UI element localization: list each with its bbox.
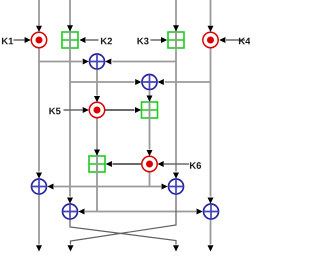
wire A vertical from U1 to XOR3L — [38, 48, 40, 172]
wire D branch to XOR2 — [165, 81, 211, 83]
wire input X2 through ADD2 — [69, 0, 71, 49]
arrowhead B into XOR2 — [135, 79, 141, 85]
wire C vertical from ADD3 to XOR3R — [175, 49, 177, 172]
arrowhead output Y2 — [68, 245, 74, 251]
label K4 — [239, 38, 250, 45]
arrowhead output Y3 — [173, 245, 179, 251]
arrowhead output Y4 — [208, 245, 214, 251]
xor XOR4R (oplus) — [204, 204, 219, 219]
wire F from XOR2 through ADD5 down to U6 — [149, 90, 151, 149]
multiplier U1 (odot) K1 — [31, 32, 46, 47]
multiplier U4 (odot) K4 — [203, 32, 218, 47]
arrowhead K1 into U1 — [25, 37, 31, 43]
arrowhead A into XOR1 — [83, 59, 89, 65]
arrowhead D into XOR2 — [158, 79, 164, 85]
arrowhead input X2 — [67, 25, 73, 31]
arrowhead input X4 — [208, 26, 214, 32]
adder ADD3 (boxplus) K3 — [168, 32, 184, 48]
wire u from U6 to ADD6 — [113, 163, 142, 165]
wire K3 label arrow line — [151, 39, 162, 41]
wire B branch to XOR2 — [70, 81, 135, 83]
arrowhead output Y1 — [36, 245, 42, 251]
arrowhead D into XOR4R — [208, 198, 214, 204]
wire K5 label arrow line — [64, 109, 83, 111]
wire K2 label arrow line — [86, 39, 99, 41]
label K6 — [190, 162, 201, 169]
wire output Y2 crossing — [71, 195, 177, 245]
arrowhead t1 into ADD5 — [135, 107, 141, 113]
arrowhead C into XOR3R — [173, 173, 179, 179]
arrowhead K2 into ADD2 — [79, 37, 85, 43]
arrowhead input X3 — [173, 25, 179, 31]
wire B vertical from ADD2 to XOR4L — [69, 49, 71, 197]
arrowhead u into ADD6 — [106, 161, 112, 167]
arrowhead v into XOR4R — [197, 209, 203, 215]
label K2 — [101, 38, 112, 45]
xor XOR2 (oplus) — [142, 75, 157, 90]
arrowhead input X1 — [36, 26, 42, 32]
label K3 — [137, 38, 148, 45]
arrowhead v into XOR4L — [78, 209, 84, 215]
wire u bus at y186 — [54, 186, 161, 188]
wire input X4 — [210, 0, 212, 26]
wire K6 label arrow line — [164, 163, 189, 165]
xor XOR1 (oplus) — [90, 54, 105, 69]
wire input X3 through ADD3 — [175, 0, 177, 49]
wire K1 label arrow line — [14, 39, 25, 41]
adder ADD6 (boxplus) — [89, 156, 105, 172]
wire output Y1 — [38, 195, 40, 245]
wire t1 from U5 through ADD6 down to v bus — [96, 118, 98, 212]
arrowhead t1 into ADD6 — [94, 150, 100, 156]
arrowhead A into XOR3L — [36, 173, 42, 179]
multiplier U5 (odot) K5 — [89, 102, 104, 117]
wire A branch to XOR1 — [39, 61, 82, 63]
wire u drop from U6 — [149, 172, 151, 187]
wire output Y4 — [210, 220, 212, 245]
wire E from XOR1 down to U5 — [96, 70, 98, 96]
arrowhead K6 into U6 — [158, 161, 164, 167]
label K5 — [49, 108, 60, 115]
xor XOR3R (oplus) — [169, 179, 184, 194]
arrowhead u into XOR3L — [47, 184, 53, 190]
arrowhead C into XOR1 — [105, 59, 111, 65]
wire C branch to XOR1 — [112, 61, 176, 63]
wire K4 label arrow line — [226, 39, 245, 41]
multiplier U6 (odot) K6 — [142, 156, 157, 171]
xor XOR4L (oplus) — [63, 204, 78, 219]
wire input X1 — [38, 0, 40, 26]
arrowhead u into XOR3R — [162, 184, 168, 190]
arrowhead t2 into U6 — [147, 150, 153, 156]
arrowhead K4 into U4 — [219, 37, 225, 43]
arrowhead B into XOR4L — [67, 198, 73, 204]
wire D vertical from U4 to XOR4R — [210, 48, 212, 197]
arrowhead K3 into ADD3 — [161, 37, 167, 43]
arrowhead K5 into U5 — [83, 107, 89, 113]
adder ADD5 (boxplus) — [142, 102, 158, 118]
arrowhead E into U5 — [94, 96, 100, 102]
arrowhead F into ADD5 — [147, 96, 153, 102]
wire t1 from U5 to ADD5 — [105, 109, 135, 111]
wire output Y3 crossing — [70, 220, 176, 245]
xor XOR3L (oplus) — [32, 179, 47, 194]
adder ADD2 (boxplus) K2 — [62, 32, 78, 48]
wire v bus at y211 — [85, 211, 196, 213]
label K1 — [2, 38, 13, 45]
